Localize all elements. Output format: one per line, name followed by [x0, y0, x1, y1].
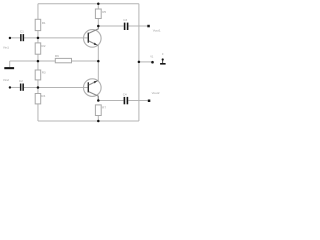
- node Vout2 terminal square: [148, 100, 151, 103]
- capacitor C2: [20, 84, 24, 91]
- svg-text:C4: C4: [123, 92, 127, 96]
- svg-text:C2: C2: [19, 79, 23, 83]
- wire emitter Q2 vertical: [97, 61, 99, 80]
- svg-text:R6: R6: [55, 54, 59, 58]
- junction C1-R1-R2: [37, 37, 40, 40]
- resistor R4: [35, 94, 41, 104]
- svg-text:Vin1: Vin1: [3, 45, 9, 49]
- wire R1 bottom: [37, 31, 39, 38]
- wire C4 to Vout2: [128, 100, 148, 102]
- wire R5 top: [97, 4, 99, 9]
- node Vin2 terminal: [9, 86, 11, 88]
- wire top rail VCC: [38, 3, 139, 5]
- transistor Q1: [84, 26, 102, 47]
- wire C3 to Vout1: [128, 25, 147, 27]
- wire mid to left ground: [10, 61, 38, 67]
- resistor R6: [55, 58, 71, 62]
- svg-text:Vout2: Vout2: [152, 91, 160, 95]
- svg-text:Vin2: Vin2: [3, 78, 9, 82]
- wire collector Q1 to C3: [98, 25, 124, 27]
- wire emitter Q1 vertical: [97, 46, 99, 62]
- svg-text:R3: R3: [42, 70, 46, 74]
- wire C2 to base Q2: [24, 86, 88, 88]
- capacitor C4: [124, 97, 129, 104]
- wire bottom rail: [38, 120, 139, 122]
- svg-text:V1: V1: [150, 55, 154, 59]
- svg-text:R5: R5: [102, 10, 106, 14]
- wire collector Q2 to C4: [98, 100, 123, 102]
- svg-text:R7: R7: [102, 106, 106, 110]
- svg-text:C3: C3: [123, 18, 127, 22]
- junction emitters-R6: [97, 60, 100, 63]
- wire C1 to base Q1: [24, 37, 88, 39]
- wire R3 connections: [37, 61, 39, 87]
- resistor R2: [35, 43, 41, 54]
- transistor Q2: [84, 79, 102, 101]
- capacitor C3: [124, 23, 129, 30]
- junction R2-R3-ground: [37, 60, 40, 63]
- wire R2 connections: [37, 38, 39, 61]
- svg-text:R2: R2: [42, 44, 46, 48]
- wire R4 connections: [37, 87, 39, 121]
- junction bottom rail R7: [97, 120, 100, 123]
- wire mid to R6: [38, 60, 55, 62]
- ground right symbol: [160, 58, 166, 64]
- resistor R3: [35, 70, 41, 80]
- svg-text:R4: R4: [41, 94, 45, 98]
- junction top rail R5: [97, 3, 100, 6]
- svg-text:Vout1: Vout1: [153, 28, 161, 32]
- wire VCC tap to terminal: [139, 61, 151, 63]
- wire Vin2 to C2: [10, 86, 20, 88]
- node Vin1 terminal: [9, 37, 11, 39]
- svg-text:R1: R1: [42, 21, 46, 25]
- wire Vin1 to C1: [10, 37, 20, 39]
- wire right rail: [138, 4, 140, 121]
- wire R7 bottom: [97, 116, 99, 122]
- node Vout1 terminal square: [147, 25, 150, 28]
- wire R6 to emitter junction: [72, 60, 99, 62]
- junction C2-R3-R4: [37, 86, 40, 89]
- resistor R5: [95, 9, 101, 19]
- junction collector Q1: [97, 25, 100, 28]
- junction collector Q2: [97, 99, 100, 102]
- capacitor C1: [20, 34, 24, 41]
- resistor R7: [95, 105, 101, 116]
- svg-text:C1: C1: [20, 29, 24, 33]
- ground left bar: [4, 67, 14, 69]
- junction right rail tap: [138, 61, 141, 64]
- resistor R1: [35, 19, 41, 30]
- wire collector Q2 vertical: [97, 96, 99, 100]
- node VCC terminal dot: [151, 61, 154, 64]
- wire R1 top: [37, 4, 39, 20]
- wire R5 bottom to collector junction: [97, 19, 99, 26]
